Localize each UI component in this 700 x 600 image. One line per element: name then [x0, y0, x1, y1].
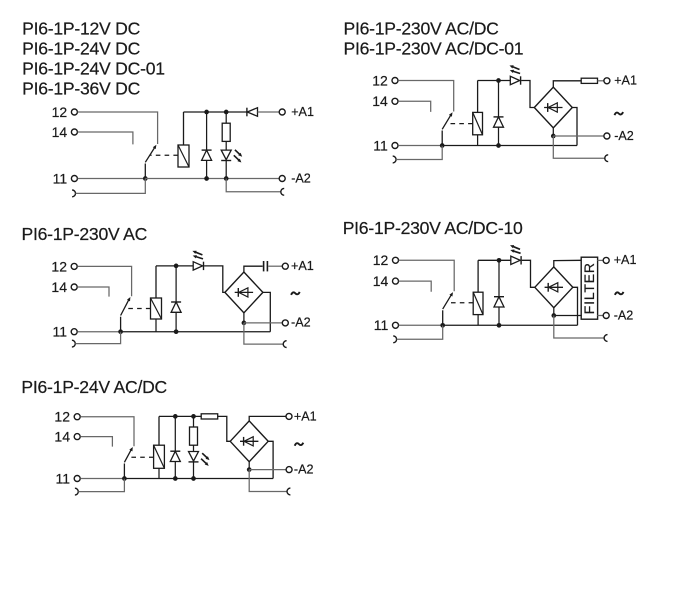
- K2 contact wire 12 to contact: [398, 81, 454, 112]
- K5 contact wire arc to arm: [78, 479, 124, 492]
- K1 contact contact arm: [144, 164, 146, 179]
- node -A2 junction circuit 2: [551, 134, 556, 139]
- svg-text:-A2: -A2: [291, 171, 311, 185]
- K3 contact terminal 14 circle: [71, 284, 77, 290]
- AC marker circuit 4: [615, 292, 624, 295]
- K4 contact wire 14 stub: [399, 281, 432, 292]
- wire bridge bottom to -A2 circuit 5: [248, 462, 250, 470]
- K3 contact wire 14 stub: [77, 287, 109, 297]
- wire top rail circuit 2: [478, 80, 511, 82]
- diode D3 (flyback): [498, 81, 500, 117]
- node bottom rail / D3: [496, 143, 501, 148]
- svg-text:14: 14: [54, 429, 70, 445]
- wire junction to filter: [554, 315, 582, 317]
- K5 contact socket arc terminal: [75, 488, 78, 495]
- wire coil K3 to top rail: [155, 266, 157, 298]
- socket arc -A2 circuit 2: [605, 155, 608, 162]
- relay coil K3: [151, 298, 162, 319]
- diode D6 (flyback): [174, 416, 176, 451]
- K2 contact socket arc terminal: [393, 156, 396, 163]
- wire capacitor to +A1: [268, 265, 282, 267]
- K5 contact wire 12 to contact: [80, 417, 134, 447]
- wire coil K5 to top rail: [158, 416, 160, 445]
- terminal +A1 circuit 3: [282, 263, 288, 269]
- terminal -A2 circuit 2: [604, 133, 610, 139]
- wire bridge top to capacitor C1: [244, 266, 263, 272]
- K1 contact wire 14 stub: [78, 132, 133, 144]
- diode D4 (flyback): [175, 266, 177, 302]
- K5 contact wire 14 stub: [80, 437, 112, 447]
- terminal -A2 circuit 5: [286, 467, 292, 473]
- K4 contact dashed actuation link: [447, 302, 473, 304]
- node -A2 junction circuit 5: [247, 467, 252, 472]
- wire resistor R6 to bridge: [218, 416, 231, 441]
- K3 contact contact arm: [120, 317, 122, 332]
- svg-text:14: 14: [51, 279, 67, 295]
- K3 contact wire 12 to contact: [77, 266, 131, 296]
- K3 contact terminal 12 circle: [71, 263, 77, 269]
- svg-text:12: 12: [51, 258, 67, 274]
- K2 contact junction 11/arm: [440, 143, 445, 148]
- LED V3: [193, 262, 202, 270]
- svg-text:11: 11: [374, 317, 389, 333]
- diode D5 (flyback): [498, 260, 500, 296]
- wire to -A2 terminal circuit 5: [249, 469, 286, 471]
- svg-text:12: 12: [52, 104, 68, 120]
- relay coil K5: [154, 445, 165, 468]
- LED V5: [189, 452, 199, 462]
- K1 contact terminal 12 circle: [71, 109, 77, 115]
- svg-text:PI6-1P-24V DC-01: PI6-1P-24V DC-01: [22, 59, 165, 79]
- K1 contact terminal 11 circle: [71, 176, 77, 182]
- node top rail / diode D3: [496, 78, 501, 83]
- K1 contact wire 12 to contact: [78, 112, 158, 144]
- K3 contact socket arc terminal: [72, 340, 75, 347]
- diode D2 (series, polarity): [246, 108, 248, 117]
- svg-text:PI6-1P-36V DC: PI6-1P-36V DC: [22, 79, 141, 99]
- K4 contact terminal 11 circle: [393, 322, 399, 328]
- K2 contact terminal 12 circle: [392, 78, 398, 84]
- AC marker circuit 3: [291, 292, 300, 295]
- svg-text:11: 11: [52, 324, 67, 340]
- K2 contact wire arc to arm: [396, 146, 442, 160]
- svg-text:14: 14: [372, 93, 388, 109]
- wire LED to bridge circuit 4: [522, 260, 535, 287]
- wire to -A2 socket circuit 2: [553, 136, 605, 158]
- K1 contact dashed actuation link: [150, 154, 178, 156]
- wire to -A2 socket circuit 4: [554, 316, 604, 339]
- relay coil K4: [473, 292, 483, 314]
- svg-text:12: 12: [373, 252, 389, 268]
- svg-text:+A1: +A1: [291, 105, 314, 119]
- svg-text:14: 14: [373, 273, 389, 289]
- K5 contact contact arm: [123, 464, 125, 479]
- capacitor C1: [263, 261, 265, 271]
- node top rail / diode D4: [174, 264, 179, 269]
- K4 contact junction 11/arm: [440, 323, 445, 328]
- relay coil K2: [473, 112, 483, 134]
- K4 contact wire arc to arm: [397, 325, 443, 339]
- K3 contact dashed actuation link: [125, 308, 151, 310]
- svg-text:PI6-1P-24V AC/DC: PI6-1P-24V AC/DC: [21, 377, 167, 397]
- K1 contact terminal 14 circle: [71, 129, 77, 135]
- wire to -A2 terminal: [553, 135, 604, 137]
- wire coil K2 to top rail: [477, 81, 479, 113]
- terminal -A2 circuit 4: [603, 313, 609, 319]
- resistor R1: [225, 112, 227, 123]
- K5 contact junction 11/arm: [122, 476, 127, 481]
- svg-text:PI6-1P-230V AC: PI6-1P-230V AC: [22, 224, 148, 244]
- terminal +A1 circuit 2: [604, 78, 610, 84]
- terminal +A1 circuit 1: [279, 109, 285, 115]
- diode D1 (flyback): [206, 112, 208, 150]
- K3 contact junction 11/arm: [118, 329, 123, 334]
- wire bridge bottom to -A2 circuit 3: [243, 313, 245, 323]
- wire coil K4 to top rail: [477, 260, 479, 292]
- svg-text:-A2: -A2: [294, 462, 314, 476]
- bridge rectifier B4: [535, 267, 573, 308]
- K5 contact wire 11: [80, 478, 124, 480]
- wire filter to -A2: [597, 315, 603, 317]
- LED V2 emission arrows: [512, 66, 520, 69]
- svg-text:-A2: -A2: [291, 316, 311, 330]
- filter block FILTER: [581, 257, 597, 319]
- K3 contact wire arc to arm: [75, 332, 120, 344]
- svg-text:11: 11: [373, 137, 388, 153]
- wire to -A2 socket: [226, 179, 281, 192]
- wire LED to bridge circuit 3: [204, 266, 225, 293]
- K2 contact wire 14 stub: [398, 101, 431, 112]
- AC marker circuit 2: [615, 112, 624, 115]
- node top rail / LED string: [191, 414, 196, 419]
- K5 contact terminal 14 circle: [74, 434, 80, 440]
- wire bottom rail circuit 1: [145, 178, 279, 180]
- svg-text:+A1: +A1: [614, 253, 637, 267]
- K4 contact socket arc terminal: [393, 336, 396, 343]
- terminal +A1 circuit 4: [603, 257, 609, 263]
- resistor R5: [193, 416, 195, 427]
- LED V3 emission arrows: [195, 252, 203, 255]
- K4 contact wire 12 to contact: [399, 260, 455, 291]
- wire to -A2 terminal circuit 3: [244, 322, 282, 324]
- K5 contact terminal 12 circle: [74, 414, 80, 420]
- resistor R2: [581, 78, 597, 83]
- bridge rectifier B3: [225, 272, 263, 313]
- wire top rail circuit 3: [156, 265, 193, 267]
- wire coil K5 bottom: [158, 468, 160, 478]
- K3 contact terminal 11 circle: [71, 329, 77, 335]
- K3 contact wire 11: [77, 331, 120, 333]
- node -A2 junction circuit 4: [551, 313, 556, 318]
- wire bridge top to filter: [554, 260, 582, 267]
- wire top rail circuit 1: [184, 111, 247, 113]
- wire to -A2 socket circuit 3: [244, 323, 283, 344]
- svg-text:PI6-1P-230V AC/DC-01: PI6-1P-230V AC/DC-01: [344, 39, 524, 59]
- K2 contact terminal 14 circle: [392, 98, 398, 104]
- wire bridge right to bottom rail circuit 3: [263, 292, 270, 331]
- node top rail / diode D5: [497, 258, 502, 263]
- K2 contact contact arm: [441, 131, 443, 146]
- svg-text:11: 11: [53, 170, 68, 186]
- LED V4: [511, 256, 520, 264]
- node bottom rail / D4: [174, 329, 179, 334]
- K1 contact socket arc terminal: [72, 190, 75, 197]
- LED V1: [221, 150, 231, 160]
- K1 contact junction 11/arm: [143, 176, 148, 181]
- node bottom rail / D5: [497, 323, 502, 328]
- node top rail / diode D6: [173, 414, 178, 419]
- wire resistor R2 to +A1: [598, 80, 604, 82]
- wire coil K3 bottom: [155, 319, 157, 332]
- K1 contact wire arc to arm: [76, 179, 146, 194]
- svg-text:PI6-1P-230V AC/DC-10: PI6-1P-230V AC/DC-10: [343, 218, 523, 238]
- K4 contact terminal 12 circle: [393, 257, 399, 263]
- svg-text:11: 11: [55, 470, 70, 486]
- svg-text:-A2: -A2: [614, 308, 634, 322]
- K5 contact terminal 11 circle: [74, 476, 80, 482]
- terminal -A2 circuit 3: [282, 320, 288, 326]
- svg-text:14: 14: [52, 124, 68, 140]
- wire bottom rail circuit 3: [121, 331, 271, 333]
- wire filter to +A1: [597, 259, 603, 261]
- wire coil K4 bottom: [477, 315, 479, 326]
- wire bridge top to resistor R2: [553, 81, 581, 87]
- AC marker circuit 5: [295, 443, 304, 446]
- svg-text:FILTER: FILTER: [581, 262, 597, 314]
- socket arc -A2 circuit 3: [283, 341, 286, 348]
- K2 contact dashed actuation link: [446, 123, 473, 125]
- wire bridge right to bottom rail: [572, 108, 577, 146]
- LED V5 emission arrows: [202, 453, 208, 458]
- wire coil K2 bottom: [477, 135, 479, 146]
- LED V4 emission arrows: [512, 246, 520, 249]
- K1 contact wire 11: [78, 178, 146, 180]
- svg-text:PI6-1P-24V DC: PI6-1P-24V DC: [22, 39, 141, 59]
- svg-text:+A1: +A1: [291, 259, 314, 273]
- svg-text:PI6-1P-12V DC: PI6-1P-12V DC: [22, 19, 141, 39]
- socket arc -A2 circuit 4: [604, 335, 607, 342]
- node top rail / diode D1: [204, 110, 209, 115]
- LED V1 emission arrows: [235, 150, 241, 155]
- wire bridge bottom to -A2: [552, 128, 554, 136]
- wire LED to bridge: [521, 81, 534, 108]
- K4 contact wire 11: [399, 324, 443, 326]
- socket arc -A2 circuit 5: [287, 488, 290, 495]
- node bottom rail / LED: [224, 176, 229, 181]
- K4 contact contact arm: [442, 310, 444, 325]
- wire coil K1 to top rail: [183, 112, 185, 145]
- svg-text:12: 12: [372, 72, 388, 88]
- bridge rectifier B5: [230, 421, 268, 462]
- svg-text:+A1: +A1: [614, 74, 637, 88]
- wire bridge right to bottom rail circuit 4: [573, 287, 578, 325]
- node bottom rail / LED string: [191, 476, 196, 481]
- wire bridge bottom to -A2 circuit 4: [553, 308, 555, 316]
- wire top rail circuit 5: [159, 415, 201, 417]
- K2 contact terminal 11 circle: [392, 143, 398, 149]
- wire bridge top to +A1: [249, 416, 286, 421]
- terminal -A2 circuit 1: [279, 176, 285, 182]
- socket arc -A2 circuit 1: [281, 188, 284, 195]
- wire diode D2 to +A1: [258, 111, 280, 113]
- node bottom rail / D1: [204, 176, 209, 181]
- LED V2: [510, 76, 519, 84]
- bridge rectifier B2: [534, 87, 572, 128]
- svg-text:PI6-1P-230V AC/DC: PI6-1P-230V AC/DC: [344, 19, 500, 39]
- wire top rail circuit 4: [478, 259, 511, 261]
- resistor R6 (series): [201, 414, 218, 419]
- relay coil K1: [178, 145, 189, 167]
- node -A2 junction circuit 3: [242, 321, 247, 326]
- node top rail / resistor R1: [224, 110, 229, 115]
- node bottom rail / D6: [173, 476, 178, 481]
- svg-text:+A1: +A1: [294, 409, 317, 423]
- wire to -A2 socket circuit 5: [249, 470, 287, 492]
- wire bottom rail circuit 5: [124, 478, 273, 480]
- wire bottom rail circuit 2: [442, 145, 577, 147]
- wire bottom rail circuit 4: [443, 324, 578, 326]
- wire bridge right to bottom rail circuit 5: [268, 441, 273, 478]
- svg-text:-A2: -A2: [614, 129, 634, 143]
- K2 contact wire 11: [398, 145, 442, 147]
- terminal +A1 circuit 5: [286, 413, 292, 419]
- K4 contact terminal 14 circle: [393, 278, 399, 284]
- svg-text:12: 12: [54, 409, 70, 425]
- K5 contact dashed actuation link: [128, 456, 154, 458]
